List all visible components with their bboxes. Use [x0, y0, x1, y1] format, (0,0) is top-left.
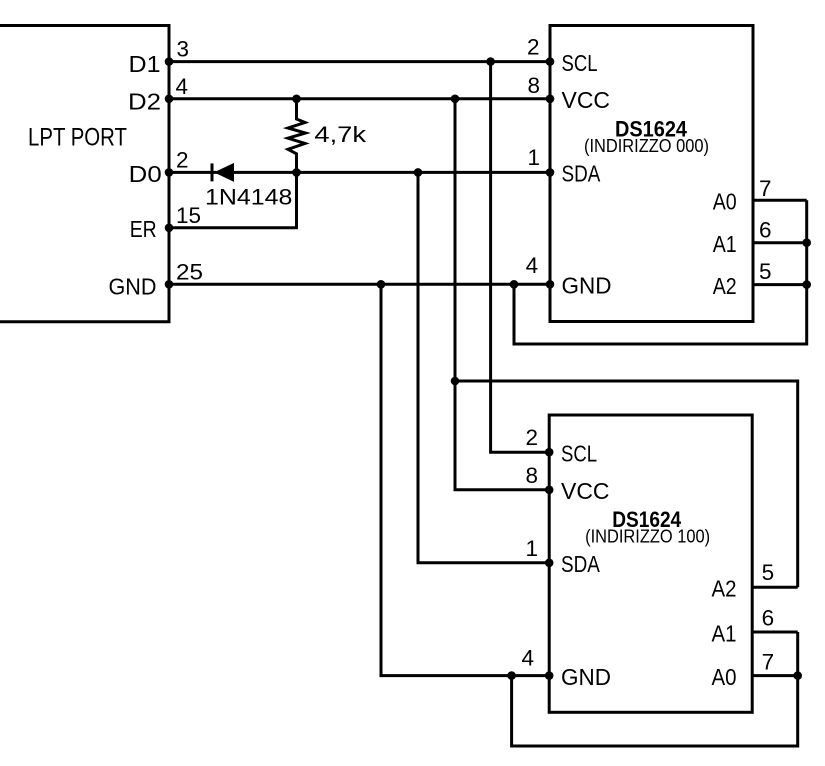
- svg-text:2: 2: [176, 147, 189, 172]
- svg-text:A0: A0: [712, 664, 737, 690]
- svg-text:1: 1: [525, 536, 538, 561]
- svg-text:GND: GND: [561, 664, 611, 690]
- svg-text:4: 4: [176, 74, 189, 99]
- svg-text:6: 6: [759, 218, 772, 243]
- svg-text:15: 15: [176, 203, 201, 228]
- svg-text:D0: D0: [129, 161, 162, 187]
- svg-text:D1: D1: [129, 51, 161, 77]
- svg-text:GND: GND: [109, 273, 157, 299]
- svg-text:SCL: SCL: [562, 50, 598, 76]
- svg-text:4: 4: [521, 646, 534, 671]
- svg-text:8: 8: [527, 73, 540, 98]
- svg-text:3: 3: [177, 37, 190, 62]
- svg-text:4: 4: [526, 253, 539, 278]
- svg-text:1N4148: 1N4148: [205, 184, 292, 209]
- svg-text:5: 5: [762, 560, 775, 585]
- svg-text:8: 8: [525, 463, 538, 488]
- svg-text:VCC: VCC: [562, 87, 611, 113]
- svg-text:(INDIRIZZO 000): (INDIRIZZO 000): [584, 136, 709, 156]
- svg-text:A1: A1: [713, 231, 737, 257]
- svg-text:ER: ER: [130, 216, 157, 242]
- svg-text:7: 7: [759, 176, 772, 201]
- svg-text:A0: A0: [713, 189, 737, 215]
- svg-text:6: 6: [762, 606, 775, 631]
- svg-text:SCL: SCL: [561, 441, 597, 467]
- svg-text:A1: A1: [712, 620, 737, 646]
- svg-text:VCC: VCC: [561, 478, 610, 504]
- svg-text:A2: A2: [712, 576, 737, 602]
- svg-text:4,7k: 4,7k: [314, 122, 367, 147]
- svg-text:(INDIRIZZO 100): (INDIRIZZO 100): [585, 527, 710, 547]
- svg-text:GND: GND: [562, 273, 612, 299]
- svg-text:D2: D2: [128, 88, 161, 114]
- svg-text:25: 25: [176, 259, 203, 284]
- svg-text:A2: A2: [713, 273, 737, 299]
- svg-text:SDA: SDA: [562, 161, 601, 187]
- svg-text:SDA: SDA: [561, 551, 600, 577]
- svg-text:2: 2: [527, 34, 540, 59]
- svg-text:7: 7: [762, 649, 775, 674]
- svg-text:LPT PORT: LPT PORT: [28, 124, 127, 152]
- svg-text:1: 1: [527, 145, 540, 170]
- svg-text:2: 2: [525, 425, 538, 450]
- svg-text:5: 5: [759, 259, 772, 284]
